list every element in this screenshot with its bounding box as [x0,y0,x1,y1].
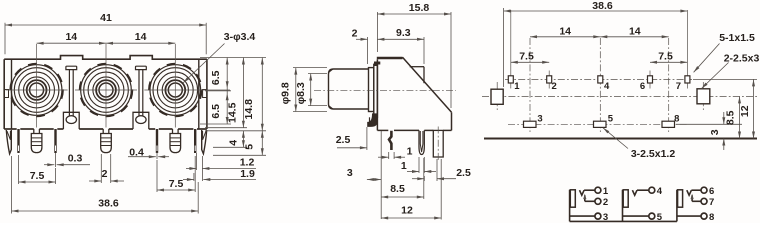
svg-text:2: 2 [352,27,358,39]
svg-text:1: 1 [603,186,609,197]
svg-text:1.2: 1.2 [240,156,255,168]
svg-text:φ9.8: φ9.8 [279,82,291,104]
svg-text:14: 14 [629,25,641,37]
svg-text:8.5: 8.5 [725,110,737,125]
svg-text:3-φ3.4: 3-φ3.4 [224,31,256,43]
svg-text:0.3: 0.3 [68,152,83,164]
svg-text:14.8: 14.8 [243,99,255,120]
svg-text:7.5: 7.5 [658,51,673,63]
svg-text:2.5: 2.5 [336,134,351,146]
svg-text:9.3: 9.3 [396,27,411,39]
svg-text:3: 3 [537,114,542,125]
svg-text:2-2.5x3: 2-2.5x3 [724,52,760,64]
svg-text:3-2.5x1.2: 3-2.5x1.2 [631,148,676,160]
svg-text:14: 14 [135,31,147,43]
svg-text:3: 3 [347,167,353,179]
svg-text:15.8: 15.8 [409,2,430,14]
svg-text:5: 5 [608,114,614,125]
svg-text:7: 7 [676,81,681,92]
svg-text:7.5: 7.5 [169,178,184,190]
svg-text:14: 14 [559,25,571,37]
svg-text:6: 6 [640,81,645,92]
svg-text:4: 4 [604,81,610,92]
svg-text:2: 2 [603,197,608,208]
svg-text:6: 6 [709,186,714,197]
svg-text:38.6: 38.6 [592,0,613,12]
svg-text:6.5: 6.5 [210,70,222,85]
svg-text:7.5: 7.5 [30,170,45,182]
svg-text:8.5: 8.5 [390,183,405,195]
svg-text:2: 2 [102,168,108,180]
svg-text:8: 8 [674,114,679,125]
svg-text:2.5: 2.5 [456,167,471,179]
svg-text:7.5: 7.5 [519,51,534,63]
svg-text:14: 14 [65,31,77,43]
svg-text:8: 8 [709,212,714,223]
svg-text:41: 41 [100,12,112,24]
svg-text:38.6: 38.6 [98,197,119,209]
svg-text:12: 12 [401,205,413,217]
svg-text:4: 4 [657,186,663,197]
svg-text:5: 5 [244,144,256,150]
svg-text:3: 3 [709,129,721,135]
svg-text:1: 1 [407,145,413,157]
svg-text:1: 1 [401,160,407,172]
svg-text:0.4: 0.4 [129,147,144,159]
svg-text:12: 12 [739,105,751,117]
svg-text:1.9: 1.9 [240,168,255,180]
svg-text:6.5: 6.5 [210,104,222,119]
svg-text:4: 4 [228,140,240,146]
svg-text:2: 2 [552,81,557,92]
svg-text:5-1x1.5: 5-1x1.5 [719,32,755,44]
svg-text:1: 1 [514,81,520,92]
svg-text:φ8.3: φ8.3 [295,82,307,104]
svg-text:7: 7 [709,197,714,208]
svg-text:14.5: 14.5 [227,102,239,123]
